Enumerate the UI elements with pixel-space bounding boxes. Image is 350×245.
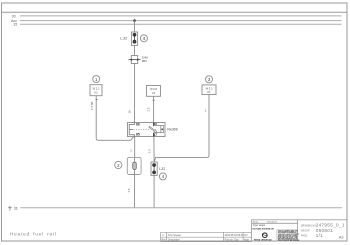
svg-text:K1: K1 [207, 90, 211, 94]
junction at relay pin 85 [133, 134, 136, 137]
note 4 (circled, bottom) [159, 173, 166, 180]
svg-text:L32: L32 [159, 167, 165, 171]
svg-text:87: 87 [153, 133, 157, 137]
svg-text:3: 3 [208, 77, 211, 82]
wire fuse L.32 to connector 2246 [134, 45, 136, 55]
net Acc (bus line) [11, 19, 342, 23]
wire relay pin 85 to fuse holder [134, 137, 136, 158]
svg-text:1.5: 1.5 [127, 188, 131, 192]
connector W2 (feed to relay pin 30) [147, 86, 161, 97]
svg-text:DRAWING NO: DRAWING NO [301, 224, 316, 227]
note 2 (circled) [115, 161, 122, 168]
svg-text:Description: Description [168, 239, 181, 242]
svg-text:AN: AN [244, 234, 248, 237]
net 30 (bus line) [12, 14, 342, 18]
svg-text:Heated fuel rail: Heated fuel rail [10, 231, 57, 237]
relay Re309 [128, 123, 166, 137]
net 15 (bus line) [13, 23, 341, 27]
pin 1 tick of W1 [96, 99, 98, 100]
pin 87 [153, 133, 155, 137]
svg-text:W 3.2: W 3.2 [206, 86, 213, 90]
maker logo [254, 233, 272, 242]
wire W2 to relay pin 30 [153, 96, 155, 122]
svg-text:15: 15 [13, 23, 17, 27]
wire W1 to relay pin 85 [96, 96, 135, 141]
svg-text:W 0.8: W 0.8 [150, 87, 157, 91]
svg-text:C4: C4 [152, 91, 156, 95]
svg-text:16: 16 [128, 110, 132, 114]
wire Acc bus to fuse L.32 [134, 21, 136, 32]
connector 2246 / 2B4 [129, 56, 141, 64]
svg-text:Re309: Re309 [167, 128, 177, 132]
svg-text:W 2.2: W 2.2 [93, 87, 100, 91]
fine print [277, 230, 298, 241]
svg-text:30: 30 [153, 123, 157, 127]
svg-text:2B4: 2B4 [142, 59, 147, 63]
svg-text:4: 4 [143, 36, 146, 41]
svg-text:2018-05-02/15:36: 2018-05-02/15:36 [225, 234, 245, 237]
ground symbol [8, 206, 11, 210]
junction on Acc bus [133, 19, 136, 22]
svg-text:1: 1 [95, 77, 98, 82]
fuse L.32 [131, 32, 137, 45]
wire fuse L32 to ground bus [153, 175, 155, 207]
svg-text:1.5: 1.5 [147, 149, 151, 153]
svg-text:K2: K2 [94, 91, 98, 95]
dashed actuation link [134, 128, 150, 130]
svg-text:85: 85 [136, 133, 140, 137]
note 1 (circled) [93, 76, 100, 83]
fuse L32 (bottom) [151, 162, 157, 175]
svg-text:86: 86 [136, 123, 140, 127]
aux element (parallel branch) [154, 125, 164, 132]
svg-text:1.5 SB: 1.5 SB [90, 101, 94, 110]
svg-text:PAGE:: PAGE: [301, 234, 308, 237]
wire connector 2246 to relay pin 86 [134, 64, 136, 123]
svg-text:First release: First release [168, 234, 182, 237]
svg-text:L.32: L.32 [120, 36, 127, 40]
wire relay pin 87 to fuse L32 [153, 137, 155, 163]
svg-text:Type: Vespa: Type: Vespa [253, 225, 266, 227]
coil of Re309 [129, 123, 134, 137]
pin tick of W2 [153, 100, 155, 101]
svg-text:2018-05-02: 2018-05-02 [267, 222, 278, 224]
svg-text:A3: A3 [339, 236, 344, 240]
pin 30 [153, 123, 155, 127]
svg-text:Appr: Appr [244, 239, 249, 242]
connector W1 [90, 85, 102, 96]
revision table [161, 232, 252, 241]
note 4 (circled) [140, 35, 147, 42]
svg-text:1/1: 1/1 [316, 233, 324, 238]
svg-text:Make: Make [253, 222, 259, 224]
fuse holder (note 2) [127, 157, 141, 174]
connector W3 [202, 85, 216, 95]
note 3 (circled) [206, 76, 213, 83]
switch arm (hollow arrow) [149, 126, 157, 132]
svg-text:GROUP:: GROUP: [301, 231, 310, 233]
ground bus (net 31) [20, 207, 342, 209]
svg-text:PENTA VERKEN AB: PENTA VERKEN AB [254, 238, 272, 241]
svg-text:2.5: 2.5 [147, 107, 151, 111]
svg-text:31: 31 [14, 206, 18, 210]
svg-text:Post no. Qua: Post no. Qua [225, 239, 240, 242]
wire W3 to fuse L32 [154, 95, 209, 163]
svg-text:2: 2 [117, 163, 120, 168]
svg-text:30: 30 [12, 14, 16, 18]
svg-text:HUVUDELSCHEMA 24V: HUVUDELSCHEMA 24V [252, 227, 274, 230]
title block [252, 220, 347, 242]
wire fuse holder to ground bus [134, 175, 136, 208]
svg-text:4: 4 [162, 174, 165, 179]
